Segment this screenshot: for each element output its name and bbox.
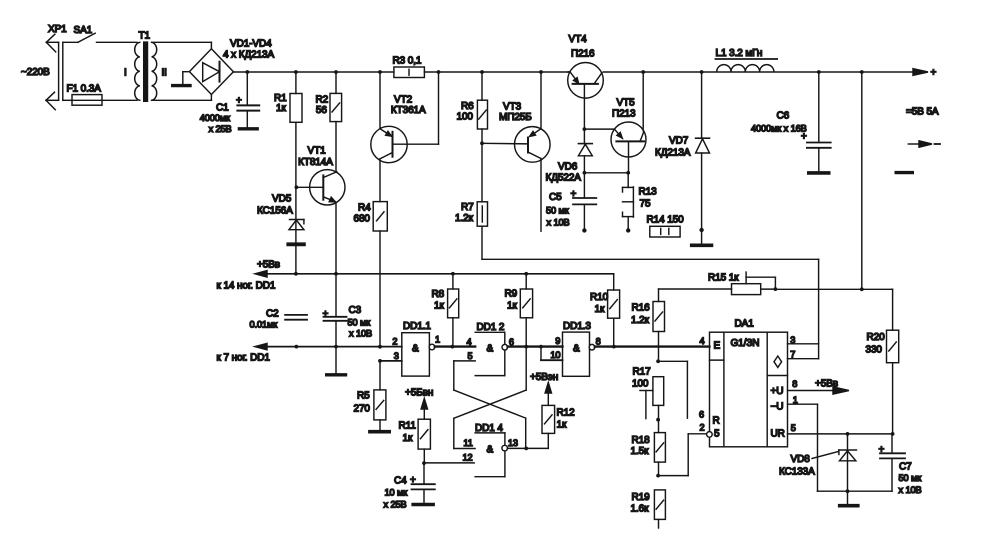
svg-text:КД522А: КД522А [546, 173, 582, 184]
svg-text:R19: R19 [632, 492, 651, 503]
transistor VT1 [296, 122, 345, 274]
wire R7 to DA1 pins 3,7 [482, 259, 819, 358]
svg-text:+: + [801, 132, 807, 143]
node VD6 bottom / C5 top [583, 171, 587, 175]
svg-text:R: R [713, 415, 720, 426]
node R9 top [524, 272, 528, 276]
svg-text:C7: C7 [899, 462, 912, 473]
wire DA1 pin 7 [788, 358, 819, 360]
resistor R5 [354, 361, 390, 432]
+5V feedback row [217, 260, 614, 292]
svg-text:4: 4 [467, 337, 472, 347]
sense wire from rail to R15 node [861, 72, 863, 289]
svg-text:VD5: VD5 [272, 194, 292, 205]
svg-text:4: 4 [700, 336, 705, 346]
svg-text:R14 150: R14 150 [647, 215, 685, 226]
connector XP1 [46, 24, 67, 110]
node R18/R19 junction [656, 474, 660, 478]
diode VD6 [546, 129, 593, 183]
node C1 top [245, 70, 249, 74]
svg-text:1к: 1к [595, 304, 605, 315]
svg-text:к 7 ног. DD1: к 7 ног. DD1 [217, 353, 271, 364]
wire R17 node stub [658, 361, 687, 418]
svg-text:&: & [573, 344, 580, 355]
node VT5 collector riser [641, 70, 645, 74]
svg-text:+5Вэн: +5Вэн [530, 372, 558, 383]
wire top rail right of VT4 [603, 71, 914, 73]
svg-text:VD8: VD8 [791, 454, 811, 465]
node DD1.2 out / R9 bottom [524, 345, 528, 349]
svg-text:L1 3.2 мГн: L1 3.2 мГн [716, 48, 763, 59]
svg-text:1к: 1к [403, 433, 413, 444]
svg-text:F1 0.3А: F1 0.3А [67, 84, 102, 95]
svg-text:R15 1к: R15 1к [708, 272, 739, 283]
svg-text:6: 6 [699, 409, 704, 419]
svg-text:x 10В: x 10В [899, 485, 922, 495]
transistor VT5 [611, 72, 646, 173]
transistor VT3 [482, 72, 550, 231]
node R6 top [480, 70, 484, 74]
svg-text:100: 100 [632, 379, 649, 390]
svg-text:0.01мк: 0.01мк [250, 320, 279, 330]
ground at bridge left vertex [173, 72, 190, 86]
svg-text:1.2к: 1.2к [631, 315, 650, 326]
svg-text:1к: 1к [276, 103, 286, 114]
svg-text:330: 330 [866, 344, 883, 355]
zener VD8 [779, 434, 856, 491]
svg-text:~220В: ~220В [21, 67, 50, 78]
node VD8 top [846, 432, 850, 436]
resistor R19 [631, 490, 666, 528]
svg-text:VT5: VT5 [617, 98, 636, 109]
svg-text:VD7: VD7 [669, 136, 689, 147]
gate DD1.3 [541, 321, 601, 376]
svg-text:П216: П216 [571, 49, 595, 60]
svg-text:DD1.3: DD1.3 [563, 321, 591, 332]
svg-text:1к: 1к [557, 420, 567, 431]
wire secondary top to bridge [152, 42, 212, 49]
capacitor C7 [848, 434, 923, 495]
svg-text:+: + [931, 68, 937, 79]
svg-text:T1: T1 [139, 31, 151, 42]
svg-text:VD1-VD4: VD1-VD4 [230, 39, 272, 50]
node sense line to R15 row [860, 287, 864, 291]
capacitor C4 [384, 463, 435, 509]
svg-text:КТ814А: КТ814А [298, 157, 333, 168]
wire top rail left of R3 [233, 71, 394, 73]
wire DA1 pin 5 UR row [788, 433, 893, 435]
wire DA1 pin 8 +5V out arrow [788, 378, 849, 394]
resistor R2 [316, 72, 342, 122]
svg-text:VT4: VT4 [569, 34, 588, 45]
node VT2 emitter [378, 70, 382, 74]
svg-text:C2: C2 [266, 309, 279, 320]
svg-text:6: 6 [509, 337, 514, 347]
wire DD1.2 pin5 [454, 361, 475, 390]
diode VD7 [655, 72, 710, 244]
svg-text:50 мк: 50 мк [899, 473, 923, 483]
fuse F1 [63, 84, 137, 106]
svg-text:R6: R6 [461, 101, 474, 112]
svg-text:50 мк: 50 мк [348, 318, 372, 328]
switch SA1 [63, 25, 137, 43]
svg-text:VT1: VT1 [308, 146, 327, 157]
resistor R7 [455, 143, 488, 259]
svg-text:R9: R9 [505, 288, 518, 299]
output plus terminal [913, 68, 937, 79]
svg-text:10 мк: 10 мк [385, 487, 409, 497]
svg-text:UR: UR [771, 428, 785, 439]
IC DA1 [699, 319, 798, 447]
node VT1 emitter on +5 row [334, 272, 338, 276]
svg-text:КД213А: КД213А [655, 148, 691, 159]
svg-text:13: 13 [508, 438, 518, 448]
svg-text:x 10В: x 10В [349, 329, 372, 339]
svg-text:C3: C3 [349, 305, 362, 316]
svg-text:5: 5 [468, 351, 473, 361]
node sense line top [860, 70, 864, 74]
svg-text:C1: C1 [216, 103, 229, 114]
svg-text:II: II [162, 68, 167, 79]
svg-text:R18: R18 [632, 435, 651, 446]
wire top rail right of R3 [424, 71, 567, 73]
node R6/R7/VT3 base [480, 141, 484, 145]
svg-text:11: 11 [463, 438, 472, 448]
output minus terminal [908, 141, 940, 147]
svg-text:C4: C4 [394, 475, 407, 486]
svg-text:+5Вв: +5Вв [257, 260, 280, 271]
wire DD1.4 output to R12 [508, 433, 549, 450]
node VT1 base junction [295, 185, 299, 189]
svg-text:DD1.1: DD1.1 [403, 321, 431, 332]
resistor R18 [631, 420, 666, 476]
transformer T1 [124, 31, 167, 102]
svg-text:R4: R4 [358, 203, 371, 214]
bar below minus terminal [896, 171, 912, 174]
resistor R8 [432, 274, 459, 347]
resistor R20 [866, 289, 899, 434]
capacitor C5 [546, 173, 596, 233]
svg-text:270: 270 [354, 403, 371, 414]
svg-text:1.6к: 1.6к [631, 504, 650, 515]
svg-text:1: 1 [793, 395, 798, 405]
svg-text:КС156А: КС156А [257, 206, 293, 217]
node VT2 base riser [437, 70, 441, 74]
svg-text:&: & [487, 344, 494, 355]
resistor R13 [623, 173, 658, 233]
resistor R14 [647, 215, 685, 238]
node R1 top [294, 70, 298, 74]
svg-text:1к: 1к [434, 300, 444, 311]
svg-text:I: I [124, 68, 127, 79]
svg-text:R10: R10 [590, 292, 609, 303]
resistor R6 [457, 72, 488, 143]
gate DD1.1 [378, 321, 440, 376]
svg-text:C5: C5 [549, 192, 562, 203]
node C3 bottom on k7 row [334, 345, 338, 349]
node R8 bottom [451, 345, 455, 349]
node C6 top [817, 70, 821, 74]
zener VD5 [257, 194, 304, 230]
svg-text:&: & [412, 344, 419, 355]
svg-text:DD1 2: DD1 2 [477, 322, 505, 333]
svg-text:R8: R8 [432, 289, 445, 300]
svg-text:XP1: XP1 [48, 24, 67, 35]
node R11 bottom / C4 / pin12 [422, 461, 426, 465]
svg-text:x 25В: x 25В [384, 499, 407, 509]
resistor R4 [354, 202, 388, 347]
svg-text:SA1: SA1 [74, 25, 93, 36]
svg-text:R13: R13 [639, 187, 658, 198]
svg-text:12: 12 [463, 452, 473, 462]
svg-text:R11: R11 [399, 420, 417, 431]
node VD8 bottom / C7 bottom [846, 489, 850, 493]
svg-text:4000мк: 4000мк [200, 113, 231, 123]
svg-text:КС133А: КС133А [779, 466, 815, 477]
wire VT4 base to VT5 emitter [584, 128, 614, 130]
svg-text:x 25В: x 25В [209, 124, 232, 134]
capacitor C1 [200, 72, 260, 134]
node VT4 base / VD6 top [583, 127, 587, 131]
svg-text:R12: R12 [557, 408, 576, 419]
svg-text:5: 5 [791, 423, 796, 433]
node R2 top [334, 70, 338, 74]
node R20 bottom / C7 top [891, 432, 895, 436]
svg-text:8: 8 [792, 379, 797, 389]
svg-text:−U: −U [771, 401, 784, 412]
svg-text:=5В 5А: =5В 5А [906, 107, 939, 118]
svg-text:П213: П213 [612, 109, 636, 120]
capacitor C6 [751, 72, 831, 173]
wire DA1 pin 3 [788, 343, 819, 345]
svg-text:75: 75 [640, 199, 651, 210]
svg-text:50 мк: 50 мк [546, 206, 570, 216]
svg-text:680: 680 [354, 214, 371, 225]
svg-text:56: 56 [316, 105, 327, 116]
svg-text:1: 1 [435, 335, 440, 345]
transistor VT4 [568, 34, 604, 129]
svg-text:1к: 1к [507, 301, 517, 312]
node R17/R18 junction [656, 418, 660, 422]
bridge rectifier VD1-VD4 [189, 39, 274, 95]
svg-text:&: & [487, 445, 494, 456]
resistor R3 [393, 56, 425, 78]
wire R18/R19 node to DA1 pin 2/5 [658, 434, 706, 476]
resistor R16 [631, 289, 665, 361]
svg-text:10: 10 [550, 350, 560, 360]
svg-text:2: 2 [392, 337, 397, 347]
node on k7 row x296 [295, 345, 299, 349]
transistor VT2 [371, 72, 439, 202]
node VT5 base / R13 top [626, 171, 630, 175]
svg-text:R16: R16 [632, 303, 651, 314]
svg-text:8: 8 [596, 337, 601, 347]
ground below VD8 [840, 491, 858, 506]
resistor R9 [505, 274, 533, 347]
capacitor C3 [323, 274, 373, 375]
svg-text:3: 3 [394, 351, 399, 361]
resistor R10 [526, 274, 619, 347]
svg-text:R20: R20 [867, 332, 886, 343]
svg-text:VT2: VT2 [394, 95, 413, 106]
svg-text:9: 9 [555, 336, 560, 346]
wire DA1 pin 1 to bottom node [788, 404, 848, 491]
resistor R1 [274, 72, 302, 274]
ground bar below VD5 [288, 242, 304, 246]
svg-text:x 10В: x 10В [547, 218, 570, 228]
svg-text:R2: R2 [316, 95, 329, 106]
node R1 line on +5 row [294, 272, 298, 276]
node pin10 branch [539, 345, 543, 349]
svg-text:R17: R17 [633, 366, 652, 377]
svg-text:100: 100 [457, 112, 474, 123]
wire secondary bottom to bridge [152, 95, 212, 101]
node R10 bottom [612, 345, 616, 349]
svg-text:E: E [714, 340, 721, 351]
gate DD1.4 [424, 423, 518, 477]
svg-text:VD6: VD6 [558, 162, 578, 173]
svg-text:+U: +U [771, 386, 784, 397]
svg-text:DA1: DA1 [735, 319, 755, 330]
svg-text:1.2к: 1.2к [455, 213, 474, 224]
svg-text:R3 0,1: R3 0,1 [393, 56, 422, 67]
svg-text:КТ361А: КТ361А [391, 105, 426, 116]
main chain wire DD1.1 out to DD1.2 [435, 345, 475, 347]
resistor R11 [399, 387, 434, 463]
svg-text:R5: R5 [357, 390, 370, 401]
ground below VD7 [692, 244, 712, 248]
resistor R15 [659, 272, 892, 295]
svg-text:C6: C6 [777, 111, 790, 122]
node R8 top [451, 272, 455, 276]
wire VD6 bottom to VT5 base / R13 [584, 172, 628, 174]
svg-text:R7: R7 [461, 202, 474, 213]
svg-text:+: + [236, 95, 242, 106]
resistor R17 [632, 366, 664, 419]
wire DD1.2 out to DD1.3 [508, 345, 563, 347]
node VD7 top [700, 70, 704, 74]
ground row k7 [217, 343, 402, 363]
inductor L1 [716, 48, 778, 72]
svg-text:2: 2 [700, 422, 705, 432]
svg-text:5: 5 [714, 428, 720, 439]
svg-text:1.5к: 1.5к [631, 446, 650, 457]
cross-coupling X wires [454, 347, 526, 449]
node VT3 emitter riser [539, 70, 543, 74]
node R16/R17 junction [656, 359, 660, 363]
resistor R12 [530, 372, 575, 433]
svg-text:+5Бвн: +5Бвн [405, 387, 433, 398]
svg-text:G1/ЗN: G1/ЗN [731, 338, 760, 349]
gate DD1.2 [467, 322, 514, 376]
wire DD1.3 out to DA1 pin4 [595, 345, 710, 347]
svg-text:МП25Б: МП25Б [499, 112, 532, 123]
svg-text:+: + [323, 309, 329, 320]
svg-text:4 x КД213А: 4 x КД213А [223, 50, 275, 61]
capacitor C2 [250, 309, 308, 330]
svg-text:к 14 ног. DD1: к 14 ног. DD1 [217, 281, 276, 292]
svg-text:4000мк x 16В: 4000мк x 16В [751, 124, 807, 134]
